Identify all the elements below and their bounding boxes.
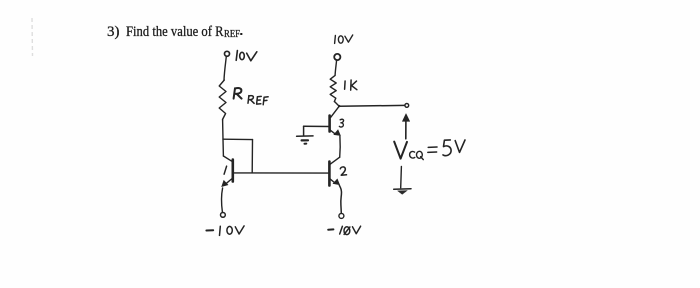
node -10V left terminal xyxy=(221,213,226,218)
label -10V right xyxy=(328,226,360,234)
Q3 emitter lead xyxy=(330,130,335,134)
Q1 emitter arrow xyxy=(222,180,228,186)
wire: collector-base tie rectangle right xyxy=(251,140,253,173)
wire: RREF to Q1 collector xyxy=(222,120,225,156)
node -10V right terminal xyxy=(339,213,344,218)
wire: Q3 emitter to Q2 collector xyxy=(339,136,342,157)
Q2 emitter arrow xyxy=(333,179,340,185)
node V+ left terminal xyxy=(225,51,230,56)
wire: Q2 emitter down to -10V xyxy=(339,185,341,213)
label VCQ = 5V xyxy=(394,140,465,160)
Q1 emitter lead xyxy=(225,179,232,185)
label RREF xyxy=(234,88,242,99)
Q1 collector lead xyxy=(223,156,232,161)
wire: 1k to output node xyxy=(335,102,340,107)
wire: right terminal to 1k xyxy=(335,60,337,75)
label -10V left xyxy=(206,226,244,236)
title: 3) Find the value of RREF. xyxy=(107,24,242,40)
Q2 emitter lead xyxy=(330,179,335,183)
Q3 collector lead xyxy=(331,106,340,117)
Q2 collector lead xyxy=(330,157,340,164)
wire: left terminal to RREF xyxy=(224,57,226,80)
resistor 1k xyxy=(330,75,336,101)
wire: collector-base tie rectangle top xyxy=(223,138,253,140)
svg-text:REF: REF xyxy=(224,29,240,40)
Q2 base bar xyxy=(328,162,331,186)
Q3 base bar xyxy=(328,116,331,132)
label 10V left xyxy=(236,51,257,61)
transistor Q1 (diode connected, faces left) xyxy=(222,156,233,187)
node output terminal xyxy=(405,104,409,108)
Q3 emitter arrow xyxy=(334,130,341,136)
base rail Q1-Q2 xyxy=(234,172,328,174)
svg-text:3): 3) xyxy=(107,24,120,40)
node junction dot xyxy=(338,105,340,107)
node V+ right terminal xyxy=(334,54,340,60)
transistor Q2 xyxy=(329,157,346,185)
label 3 xyxy=(339,119,343,127)
label 2 xyxy=(340,167,346,175)
Q1 base bar xyxy=(232,160,235,182)
label 1k xyxy=(345,80,357,90)
svg-text:Find the value of R: Find the value of R xyxy=(126,24,224,40)
faint scan mark left edge xyxy=(31,18,34,56)
ground (Q3 base) xyxy=(297,126,313,143)
VCQ up arrow xyxy=(402,114,410,139)
wire: Q1 emitter down to -10V xyxy=(222,188,223,212)
transistor Q3 xyxy=(330,106,344,135)
Q3 base wire to ground xyxy=(304,125,329,127)
resistor RREF xyxy=(219,80,226,120)
label 1 xyxy=(224,166,227,174)
ground (VCQ reference) xyxy=(394,166,411,194)
wire: output node to open terminal xyxy=(339,104,405,107)
label 10V right xyxy=(335,35,353,43)
